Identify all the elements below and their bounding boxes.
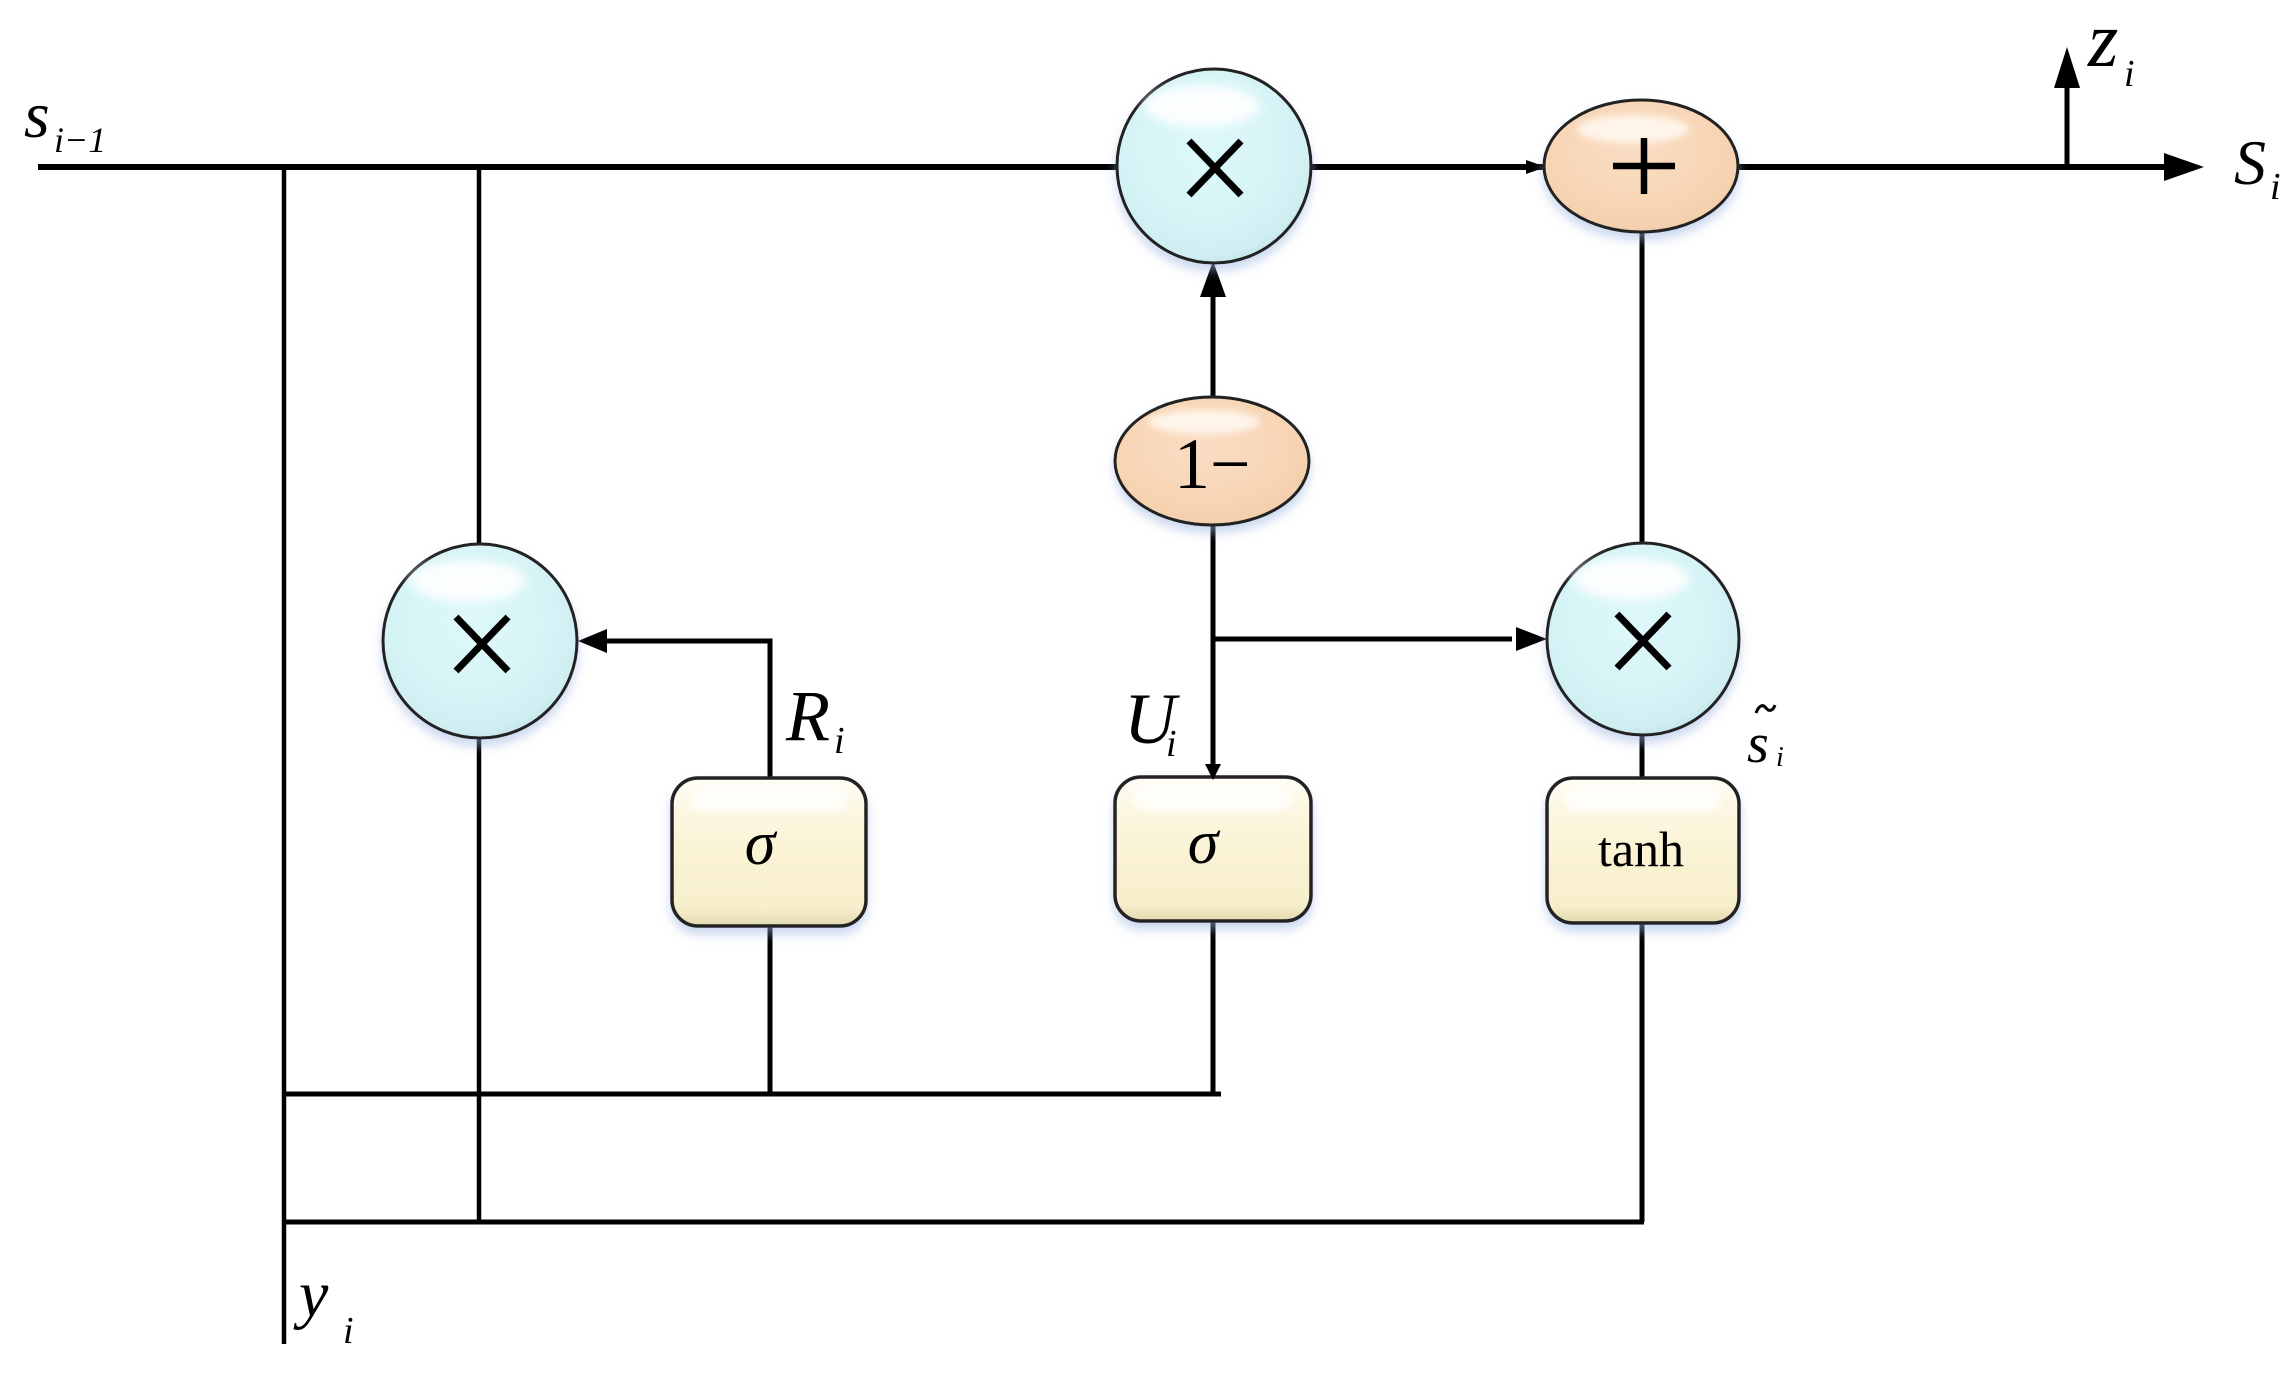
svg-text:i: i [1166, 723, 1177, 765]
svg-text:σ: σ [745, 810, 778, 878]
svg-text:y: y [293, 1258, 329, 1331]
svg-text:s: s [1747, 713, 1769, 775]
svg-text:S: S [2234, 127, 2266, 198]
svg-text:tanh: tanh [1598, 821, 1684, 877]
svg-text:i: i [2124, 53, 2135, 95]
svg-text:1−: 1− [1174, 424, 1251, 504]
svg-text:s: s [24, 79, 50, 152]
svg-text:z: z [2087, 0, 2118, 83]
svg-text:i: i [343, 1310, 354, 1352]
svg-text:i: i [2270, 166, 2281, 208]
svg-text:i: i [834, 720, 845, 762]
svg-text:i−1: i−1 [54, 120, 106, 160]
svg-text:i: i [1776, 742, 1784, 773]
svg-text:σ: σ [1188, 809, 1221, 877]
svg-text:R: R [785, 676, 830, 756]
